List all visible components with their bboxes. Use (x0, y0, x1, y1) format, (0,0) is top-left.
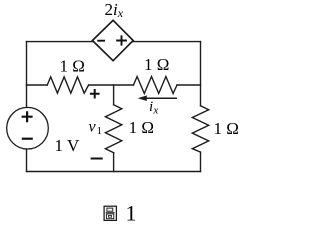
svg-text:x: x (152, 105, 158, 117)
svg-text:1 Ω: 1 Ω (214, 119, 239, 138)
wire middle branch upper lead (113, 85, 115, 105)
wire middle row center lead (89, 84, 134, 86)
wire right rail lower (200, 152, 202, 171)
v1 polarity plus sign (90, 89, 100, 99)
wire middle row right lead (177, 84, 201, 86)
svg-text:2ix: 2ix (105, 0, 124, 20)
svg-text:1 Ω: 1 Ω (60, 56, 85, 75)
wire top rail left segment (27, 41, 93, 43)
resistor R4 1 Ohm vertical right zigzag (192, 106, 208, 152)
dependent source plus sign (116, 35, 127, 45)
wire bottom rail (27, 171, 201, 173)
resistor R2 1 Ohm horizontal right zigzag (134, 77, 178, 94)
svg-text:1: 1 (97, 125, 103, 137)
wire left rail upper (26, 42, 28, 108)
wire middle branch lower lead (113, 153, 115, 172)
svg-text:1: 1 (126, 200, 137, 225)
wire top rail right segment (133, 41, 200, 43)
voltage source plus sign (22, 111, 33, 122)
voltage source V1 circle (7, 107, 49, 149)
svg-text:1 Ω: 1 Ω (144, 55, 169, 74)
dependent source minus sign (97, 40, 105, 42)
voltage source minus sign (22, 138, 33, 140)
wire middle row left lead (27, 84, 48, 86)
svg-text:v: v (89, 118, 97, 135)
resistor R1 1 Ohm horizontal left zigzag (47, 77, 88, 93)
wire right rail upper (200, 42, 202, 106)
v1 polarity minus sign (91, 158, 103, 160)
current arrow ix pointing left (145, 97, 177, 99)
dependent source U1 diamond 2ix (92, 20, 133, 60)
resistor R3 1 Ohm vertical middle zigzag (105, 105, 121, 153)
svg-text:1 Ω: 1 Ω (129, 118, 154, 137)
caption figure glyph (CJK tu) drawn manually (104, 206, 116, 220)
wire left rail lower (26, 149, 28, 171)
svg-text:1 V: 1 V (55, 136, 80, 155)
